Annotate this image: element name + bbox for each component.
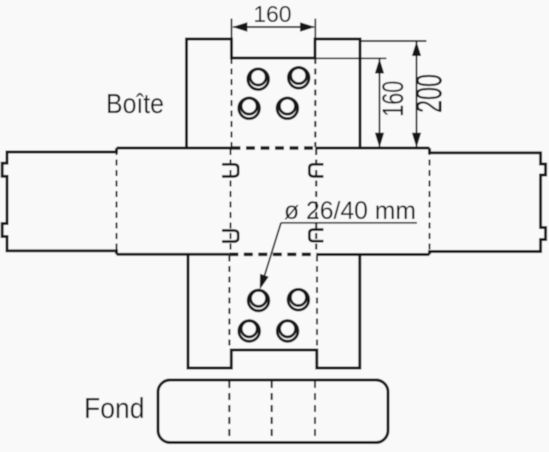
dimension 200 right: dimension line [416,42,418,148]
right fold line (dashed vertical) [429,149,431,253]
leader arrowhead [260,274,269,290]
hole bottom arm lower-left [239,321,260,342]
svg-text:ø 26/40 mm: ø 26/40 mm [284,197,416,225]
lock slot lower on left fold [222,230,238,241]
dimension 160 top: extension line left [231,19,233,39]
body bottom edge left segment [117,253,230,256]
body top fold (thick dashed) [232,146,316,150]
lock slot upper on left fold [222,164,238,176]
svg-text:160: 160 [253,1,291,27]
leader line to hole [263,223,282,282]
svg-text:200: 200 [409,74,450,113]
dimension 160 right: bottom arrowhead [375,133,384,148]
dimension 160 top: extension line right [314,19,316,39]
lock slot upper on right fold [309,164,323,176]
hole bottom arm upper-left [248,290,269,311]
bottom arm panel outline [188,254,360,368]
left fold line (dashed vertical) [116,149,118,253]
Fond piece rounded outline [158,380,388,443]
fold line left (dashed, top arm) [231,58,233,147]
hole top arm lower-right [277,98,298,119]
body bottom edge right segment [317,253,430,256]
dimension 200 right: bottom arrowhead [412,133,421,148]
Fond fold line middle (dashed) [271,381,273,442]
fold line right (dashed, top arm) [314,58,316,147]
fold line right (dashed, bottom arm) [316,256,318,351]
centre panel right fold line (dashed) [315,149,317,254]
lock slot lower on right fold [309,230,323,242]
hole label underline [281,222,417,224]
dimension 160 top: right arrowhead [300,22,315,31]
body bottom fold (thick dashed) [229,253,317,257]
svg-text:Boîte: Boîte [106,88,164,119]
dimension 160 right: top arrowhead [375,59,384,74]
Fond fold line right (dashed) [314,381,316,442]
body top edge right segment [315,147,429,150]
left glue flap outline with lock tabs [2,148,116,254]
dimension 160 top: left arrowhead [232,22,247,31]
top lid panel outline [187,39,361,148]
svg-text:160: 160 [377,81,410,117]
hole top arm lower-left [239,98,260,119]
Fond fold line left (dashed) [228,381,230,442]
svg-text:Fond: Fond [84,393,145,425]
dimension 160 right: dimension line [379,59,381,147]
hole top arm upper-left [248,69,269,90]
hole top arm upper-right [288,68,309,89]
dimension 160 right: extension line [316,57,387,59]
hole bottom arm lower-right [277,321,298,342]
dimension 160 top: dimension line [233,26,314,28]
dimension 200 right: top arrowhead [412,41,421,56]
dimension 200 right: extension line [361,40,427,42]
body top edge left segment [117,147,232,150]
hole bottom arm upper-right [288,289,309,310]
fold line left (dashed, bottom arm) [228,256,230,351]
right glue flap outline with lock tabs [430,148,546,255]
centre panel left fold line (dashed) [230,149,232,254]
